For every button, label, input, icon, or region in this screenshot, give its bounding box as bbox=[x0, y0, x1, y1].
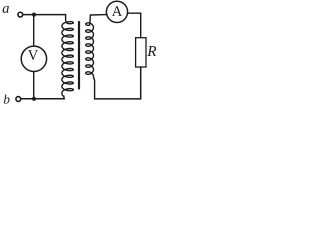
wire bbox=[33, 72, 35, 99]
transformer secondary winding bbox=[86, 15, 95, 99]
wire bbox=[33, 15, 35, 46]
node b bbox=[4, 94, 10, 103]
wire bbox=[21, 98, 64, 100]
resistor R bbox=[136, 38, 146, 67]
wire bbox=[95, 67, 141, 99]
ammeter A bbox=[106, 1, 127, 22]
wire bbox=[23, 14, 66, 16]
transformer primary winding bbox=[62, 15, 73, 99]
terminal b bbox=[16, 97, 21, 102]
junction bbox=[32, 97, 36, 101]
transformer core bbox=[78, 22, 80, 89]
wire bbox=[127, 13, 140, 38]
node a bbox=[3, 6, 9, 13]
wire bbox=[90, 14, 107, 16]
terminal a bbox=[18, 12, 23, 17]
junction bbox=[32, 13, 36, 17]
voltmeter V bbox=[21, 46, 46, 71]
